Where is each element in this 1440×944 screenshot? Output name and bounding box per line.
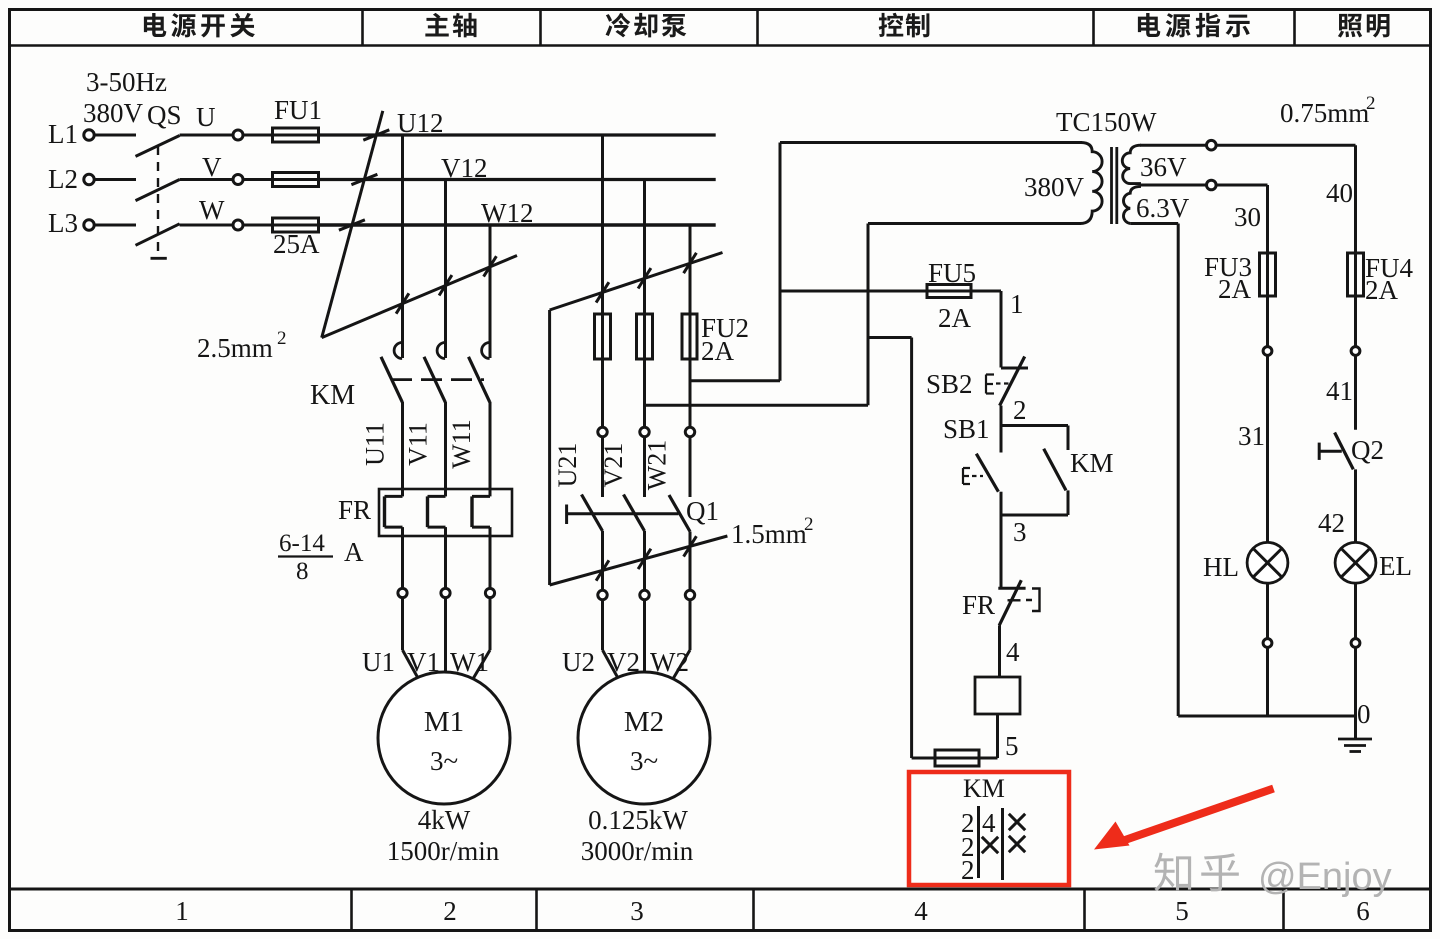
svg-text:3: 3 — [1013, 517, 1027, 547]
svg-text:2.5mm: 2.5mm — [197, 333, 273, 363]
cable tick U11 branch — [396, 293, 409, 313]
header label 电源指示 — [1138, 13, 1160, 37]
watermark 知乎 — [1154, 853, 1191, 892]
header label 控制 — [879, 13, 904, 37]
wire SB1 upper — [1000, 426, 1003, 453]
terminal W21 — [685, 427, 694, 436]
terminal below EL — [1351, 639, 1360, 648]
cable tick W12 — [339, 220, 365, 230]
wire SB2 to node2 — [1000, 406, 1003, 426]
svg-text:380V: 380V — [1024, 172, 1085, 202]
motor M2 — [578, 672, 710, 804]
wire node3 branch bottom — [1001, 514, 1068, 517]
wire FU5 to node 1 — [971, 290, 1001, 293]
footer column divider 3 — [752, 889, 755, 931]
wire L1 to QS — [95, 134, 137, 137]
transformer TC secondary winding 6.3V — [1123, 186, 1141, 223]
svg-text:TC150W: TC150W — [1056, 107, 1157, 137]
svg-text:V11: V11 — [404, 422, 433, 466]
wire W11 — [489, 402, 492, 489]
wire EL to 0 bus — [1354, 647, 1357, 716]
svg-text:3~: 3~ — [630, 746, 658, 776]
svg-text:5: 5 — [1005, 731, 1019, 761]
wire SB1 lower — [1000, 492, 1003, 515]
fuse FU2 pole 3 — [682, 314, 697, 359]
pushbutton SB2 actuator — [986, 375, 994, 394]
svg-text:KM: KM — [310, 380, 355, 411]
terminal V2 node — [640, 590, 649, 599]
wire W12 bus — [319, 223, 716, 227]
svg-text:6.3V: 6.3V — [1136, 193, 1190, 223]
FR heater element pole 3 — [489, 489, 492, 496]
header row separator line — [8, 44, 1432, 47]
switch QS linkage (dashed) — [157, 146, 159, 258]
fuse FU1 pole 1 — [273, 128, 319, 142]
wire FU2-V21 down — [643, 359, 646, 427]
cable tick W2 — [684, 536, 697, 556]
svg-text:U21: U21 — [553, 443, 582, 488]
cable marker 1.5mm2 bracket — [548, 310, 551, 585]
pushbutton SB2 blade — [1000, 357, 1025, 406]
wire transformer primary bottom lead — [868, 222, 1081, 225]
wire 36V top lead — [1140, 144, 1207, 147]
wire fuse to riser — [912, 757, 935, 760]
svg-text:2A: 2A — [1218, 274, 1252, 304]
wire V1 to motor — [444, 598, 447, 672]
switch Q2 handle — [1318, 443, 1321, 460]
svg-text:V: V — [202, 152, 222, 182]
svg-text:U: U — [196, 102, 216, 132]
svg-text:0.125kW: 0.125kW — [588, 805, 688, 835]
svg-text:U11: U11 — [361, 422, 390, 466]
svg-text:30: 30 — [1234, 202, 1261, 232]
cable tick W21 upper — [684, 253, 697, 273]
wire V21 to transformer feed — [645, 404, 869, 407]
svg-text:M1: M1 — [424, 706, 464, 738]
svg-text:W21: W21 — [643, 440, 672, 491]
pushbutton SB2 fixed tick — [1001, 367, 1028, 370]
svg-text:8: 8 — [296, 558, 309, 585]
footer column divider 1 — [350, 889, 353, 931]
contactor KM main contact pole 1 — [394, 343, 402, 359]
contactor coil KM — [975, 677, 1020, 714]
svg-text:2A: 2A — [1365, 275, 1399, 305]
wire V11 — [444, 402, 447, 489]
svg-text:380V: 380V — [83, 98, 144, 128]
svg-text:2A: 2A — [938, 303, 972, 333]
wire QS-V output — [180, 178, 233, 181]
header column divider 4 — [1092, 10, 1095, 45]
cable tick U21 upper — [596, 282, 609, 302]
svg-text:Q2: Q2 — [1351, 435, 1384, 465]
wire EL down — [1354, 583, 1357, 639]
wire node2 branch top — [1001, 424, 1068, 427]
wire FR to M1 terminal V1 — [444, 536, 447, 589]
svg-text:M2: M2 — [624, 706, 664, 738]
wire 31 to HL — [1266, 356, 1269, 543]
svg-text:U1: U1 — [362, 647, 395, 677]
wire FU4 down — [1354, 296, 1357, 346]
lamp EL — [1335, 542, 1376, 583]
wire W1 to motor — [489, 598, 492, 650]
terminal node 41 upper — [1351, 347, 1360, 356]
cable tick V21 upper — [638, 268, 651, 288]
fuse FU4 — [1348, 253, 1364, 296]
switch Q1 pole 1 blade — [582, 495, 603, 532]
wire W to FU1 — [243, 224, 273, 227]
terminal W — [233, 220, 243, 230]
wire V21 to Q1 — [643, 437, 646, 497]
wire W21 to transformer feed — [690, 379, 780, 382]
contactor KM main contact pole 2 — [437, 343, 445, 359]
wire QS-W output — [180, 224, 233, 227]
thermal contact FR cross tick — [1008, 599, 1021, 601]
svg-text:A: A — [344, 537, 364, 567]
footer row separator line — [8, 888, 1432, 891]
wire 36V/6.3V mid lead — [1140, 184, 1207, 187]
wire L3 to QS — [95, 224, 137, 227]
svg-text:2: 2 — [1013, 395, 1027, 425]
wire FR to node4 — [998, 625, 1001, 677]
terminal V1 — [441, 588, 450, 597]
terminal U21 — [598, 427, 607, 436]
wire phase W21 riser to transformer — [779, 143, 782, 381]
wire V2 to motor — [643, 600, 646, 672]
lamp HL — [1247, 542, 1288, 583]
cable marker diagonal (2.5mm2) branch run — [322, 256, 517, 338]
wire U11 — [401, 402, 404, 489]
svg-text:2: 2 — [443, 896, 457, 926]
thermal contact FR fixed tick — [998, 587, 1025, 590]
wire control tap jog — [868, 336, 912, 339]
svg-text:U2: U2 — [562, 647, 595, 677]
thermal contact FR blade — [999, 580, 1021, 625]
wire FU5 feed — [780, 290, 927, 293]
wire node5 fuse line — [979, 757, 998, 760]
cable tick W11 branch — [484, 256, 497, 276]
switch Q1 linkage bar — [567, 512, 679, 515]
fuse FU2 pole 1 — [595, 314, 611, 359]
svg-text:3: 3 — [630, 896, 644, 926]
red highlight box — [909, 772, 1069, 885]
terminal V21 — [640, 427, 649, 436]
wire V12 bus — [319, 178, 716, 181]
svg-text:SB2: SB2 — [926, 369, 973, 399]
wire W12 drop to KM — [489, 225, 492, 358]
wire phase V21 riser — [867, 224, 870, 406]
svg-text:L3: L3 — [48, 208, 78, 238]
svg-text:SB1: SB1 — [943, 414, 990, 444]
svg-text:4: 4 — [1006, 637, 1020, 667]
wire node1 to SB2 — [1000, 291, 1003, 368]
wire 0 bus — [1178, 715, 1355, 718]
svg-text:31: 31 — [1238, 421, 1265, 451]
wire FR to M1 terminal W1 — [489, 536, 492, 589]
svg-text:V12: V12 — [441, 153, 488, 183]
wire KM aux upper — [1067, 426, 1070, 451]
cable tick V11 branch — [439, 275, 452, 295]
terminal U2 node — [598, 590, 607, 599]
red arrow — [1125, 789, 1274, 841]
wire V to FU1 — [243, 178, 273, 181]
switch QS handle bar — [151, 257, 167, 260]
wire to node 40 corner — [1216, 144, 1355, 147]
cable marker 1.5mm2 upper diagonal — [550, 253, 723, 311]
cable tick V12 — [351, 174, 377, 184]
wire W2 to motor — [689, 600, 692, 650]
svg-text:1500r/min: 1500r/min — [387, 836, 500, 866]
wire control return riser — [910, 338, 913, 759]
wire FU2-U21 down — [601, 359, 604, 427]
cable tick U2 — [596, 560, 609, 580]
wire 41 to Q2 — [1354, 356, 1357, 430]
switch Q1 pole 3 blade — [669, 495, 690, 532]
transformer core — [1110, 147, 1113, 224]
wire U to FU1 — [243, 134, 273, 137]
svg-text:W11: W11 — [447, 419, 476, 469]
svg-text:U12: U12 — [397, 108, 444, 138]
footer column divider 2 — [535, 889, 538, 931]
wire node3 to FR — [1000, 515, 1003, 588]
wire FR to M1 terminal U1 — [401, 536, 404, 589]
svg-text:FU5: FU5 — [928, 258, 976, 288]
svg-text:6-14: 6-14 — [279, 530, 325, 557]
svg-text:3000r/min: 3000r/min — [581, 836, 694, 866]
wire common riser 0 — [1177, 224, 1180, 717]
svg-text:2: 2 — [961, 855, 975, 885]
pushbutton SB1 blade — [976, 454, 998, 492]
FR heater element pole 1 — [401, 489, 404, 496]
wire FU2-W21 down — [689, 359, 692, 427]
svg-text:EL: EL — [1379, 551, 1412, 581]
wire Q1 out U2 — [601, 531, 604, 590]
switch QS pole 3 blade — [136, 224, 180, 246]
svg-text:5: 5 — [1175, 896, 1189, 926]
svg-text:6: 6 — [1356, 896, 1370, 926]
fuse FU3 — [1260, 253, 1276, 296]
svg-text:HL: HL — [1203, 552, 1239, 582]
wire L2 to QS — [95, 178, 137, 181]
pushbutton SB1 actuator — [963, 468, 970, 484]
wire Q1 out W2 — [689, 532, 692, 591]
svg-text:FR: FR — [962, 590, 995, 620]
wire U2 to motor — [601, 600, 604, 650]
svg-text:0: 0 — [1357, 699, 1371, 729]
wire FU3 down — [1266, 296, 1269, 346]
terminal below HL — [1263, 639, 1272, 648]
fuse FU1 pole 3 — [273, 218, 319, 232]
wire Q2 to EL — [1354, 469, 1357, 542]
svg-text:1: 1 — [1010, 289, 1024, 319]
terminal V — [233, 175, 243, 185]
svg-text:1: 1 — [175, 896, 189, 926]
wire U21 to Q1 — [601, 437, 604, 497]
wire to node 30 corner — [1216, 184, 1267, 187]
wire U12 bus — [319, 133, 716, 136]
terminal W2 node — [685, 590, 694, 599]
wire U1 to motor — [401, 598, 404, 650]
fuse FU1 pole 2 — [273, 173, 319, 187]
cable marker diagonal (2.5mm2) vertical run — [322, 111, 383, 338]
cable tick V2 — [638, 549, 651, 569]
svg-text:2A: 2A — [701, 336, 735, 366]
wire HL to 0 bus — [1266, 647, 1269, 716]
header label 电源开关 — [144, 13, 166, 37]
cable marker 1.5mm2 lower diagonal — [550, 536, 728, 585]
thermal contact FR hook — [1026, 589, 1040, 612]
wire U12 drop to KM — [401, 135, 404, 358]
contactor KM aux contact blade — [1044, 449, 1066, 491]
svg-text:36V: 36V — [1140, 152, 1187, 182]
terminal U1 — [398, 588, 407, 597]
cable tick U12 — [363, 130, 389, 140]
terminal L3 — [84, 220, 94, 230]
svg-text:L2: L2 — [48, 164, 78, 194]
svg-text:2: 2 — [804, 514, 814, 535]
FR heater element pole 2 — [444, 489, 447, 496]
terminal L2 — [84, 174, 94, 184]
svg-text:0.75mm: 0.75mm — [1280, 98, 1369, 128]
switch QS pole 2 blade — [136, 180, 180, 201]
wire 6.3V bottom lead — [1130, 222, 1178, 225]
header label 主轴 — [425, 13, 448, 37]
svg-text:42: 42 — [1318, 508, 1345, 538]
KM main linkage (dashed) — [391, 378, 484, 381]
svg-text:L1: L1 — [48, 119, 78, 149]
wire transformer primary top lead — [780, 141, 1082, 144]
wire HL down — [1266, 583, 1269, 639]
header column divider 2 — [539, 10, 542, 45]
wire W12 drop to FU2 — [689, 225, 692, 314]
svg-text:40: 40 — [1326, 178, 1353, 208]
header column divider 5 — [1293, 10, 1296, 45]
header label 冷却泵 — [606, 13, 631, 38]
motor M1 — [378, 672, 510, 804]
header column divider 1 — [361, 10, 364, 45]
svg-text:KM: KM — [963, 774, 1005, 803]
footer column divider 4 — [1083, 889, 1086, 931]
switch Q1 handle end bar — [565, 505, 568, 525]
svg-text:4: 4 — [982, 808, 996, 838]
terminal secondary mid — [1207, 180, 1217, 190]
KM contact table columns — [977, 806, 980, 878]
switch Q1 pole 2 blade — [624, 495, 645, 532]
terminal L1 — [84, 130, 94, 140]
fuse FU2 pole 2 — [637, 314, 653, 359]
header label 照明 — [1338, 14, 1362, 38]
wire QS-U output — [180, 134, 233, 137]
terminal U — [233, 130, 243, 140]
wire U12 drop to FU2 — [601, 135, 604, 314]
fuse (control return) — [935, 750, 979, 766]
wire KM aux lower — [1067, 490, 1070, 515]
wire V12 drop to FU2 — [643, 180, 646, 315]
svg-text:FU1: FU1 — [274, 95, 322, 125]
switch QS pole 1 blade — [136, 136, 180, 157]
svg-text:3-50Hz: 3-50Hz — [86, 67, 167, 97]
fuse FU5 — [927, 285, 971, 298]
svg-text:Q1: Q1 — [686, 496, 719, 526]
svg-text:W: W — [199, 195, 225, 225]
contactor KM main contact pole 3 — [482, 343, 490, 359]
transformer TC secondary winding 36V — [1122, 145, 1141, 183]
wire V12 drop to KM — [444, 180, 447, 359]
svg-text:2: 2 — [1366, 93, 1376, 114]
wire W21 to Q1 — [689, 437, 692, 497]
svg-text:3~: 3~ — [430, 746, 458, 776]
svg-text:2: 2 — [277, 328, 287, 349]
svg-text:1.5mm: 1.5mm — [731, 519, 807, 549]
footer column divider 5 — [1282, 889, 1285, 931]
svg-text:4kW: 4kW — [418, 805, 471, 835]
svg-text:KM: KM — [1070, 448, 1114, 478]
ground symbol — [1354, 716, 1357, 739]
svg-text:4: 4 — [914, 896, 928, 926]
switch Q2 blade — [1335, 433, 1354, 470]
thermal relay FR box — [379, 489, 512, 536]
terminal W1 — [485, 588, 494, 597]
wire Q1 out V2 — [643, 531, 646, 590]
svg-text:W12: W12 — [481, 198, 533, 228]
svg-text:41: 41 — [1326, 376, 1353, 406]
header column divider 3 — [756, 10, 759, 45]
wire coil to node5 — [996, 714, 999, 758]
svg-text:@Enjoy: @Enjoy — [1258, 856, 1392, 898]
svg-text:FR: FR — [338, 495, 371, 525]
terminal secondary top — [1207, 140, 1217, 150]
transformer TC primary winding 380V — [1080, 143, 1102, 224]
terminal node 31 upper — [1263, 347, 1272, 356]
svg-text:QS: QS — [147, 100, 182, 130]
